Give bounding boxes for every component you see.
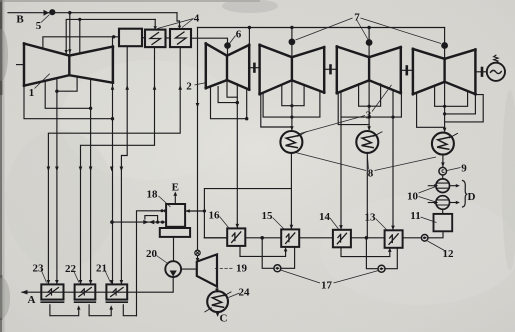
condenser 8c <box>432 133 458 155</box>
wire IP right tap <box>246 89 248 119</box>
pointer 9 <box>447 168 461 171</box>
node LP1 crossings <box>290 104 293 107</box>
main steam line B <box>8 12 177 14</box>
wire box2-box3 connector <box>166 37 171 39</box>
valve 7 of LP3 <box>444 28 446 43</box>
generator <box>487 55 505 81</box>
node LP2 outer crossings <box>368 116 371 119</box>
node IP exhaust <box>236 101 239 104</box>
wire valve 6 to turbine 2 <box>227 48 229 55</box>
drop from main steam to reheater box3 <box>177 13 180 28</box>
heater 14 <box>333 230 351 248</box>
pointer 13 <box>376 219 387 230</box>
wire HP drain cascade 23 to 22 <box>50 305 79 316</box>
pointer 14 <box>330 218 339 229</box>
wire BFPT steam line <box>197 28 199 251</box>
pointer 18 <box>159 196 171 207</box>
wire pump20 shaft to BFPT <box>181 268 197 270</box>
turbine 19 (BFPT) <box>197 254 217 286</box>
valve 7 of LP2 <box>368 28 370 40</box>
svg-text:C: C <box>220 313 228 325</box>
wire LP2 extraction to heater 13 <box>392 90 394 230</box>
wire shaft stub left of turbine 1 <box>17 64 24 66</box>
pointer 22 <box>74 271 80 283</box>
turbine 1 (HP, double-flow) <box>24 44 113 86</box>
condenser 24 <box>205 291 231 312</box>
pointer 23 <box>41 270 47 283</box>
node manifold branch LP1 <box>290 26 293 29</box>
wire riser to separator / drop to heater 21 left <box>112 37 114 285</box>
turbine 3a (LP double-flow) <box>260 45 325 94</box>
wire HP extraction drop to heater 22 right <box>90 79 92 285</box>
turbine 3b (LP double-flow) <box>337 47 401 94</box>
HP heater 22 <box>75 284 96 302</box>
wire LP3 center drop to condenser 3 <box>444 82 446 131</box>
svg-text:23: 23 <box>33 263 45 275</box>
wire manifold riser from turbine 2 top right <box>248 28 250 45</box>
flow arrows below boxes <box>111 85 182 90</box>
pointer 10 (two) <box>419 187 436 203</box>
svg-text:5: 5 <box>36 20 42 32</box>
wire HP drain cascade 22 to 21 <box>89 305 111 316</box>
node IP side loop <box>245 117 248 120</box>
second admission header <box>66 19 155 53</box>
svg-text:24: 24 <box>239 287 251 299</box>
wire IP exhaust left <box>218 87 237 103</box>
svg-text:A: A <box>28 294 36 306</box>
wire 10b to tank 11 <box>442 209 444 214</box>
svg-text:22: 22 <box>65 263 77 275</box>
brace D <box>463 181 468 208</box>
node cold reheat tee <box>111 117 114 120</box>
wire shaft LP2-LP3 with coupling <box>401 69 413 71</box>
wire condenser2 condensate drop <box>366 152 368 237</box>
wire LP1 center drop to condenser 1 <box>291 80 293 129</box>
pointer 5 <box>41 15 50 23</box>
svg-text:1: 1 <box>29 87 35 99</box>
drop header into box2 <box>154 19 156 28</box>
svg-text:15: 15 <box>262 210 274 222</box>
wire condensate main runs <box>204 237 384 239</box>
heater 13 <box>385 230 403 248</box>
pointer 2 <box>195 83 207 86</box>
wire reheater box3 drain <box>48 47 180 284</box>
wire HP left exhaust loop <box>24 86 113 119</box>
wire IP waist drain <box>227 80 237 97</box>
svg-text:17: 17 <box>321 280 333 292</box>
wire box1-box2 connector <box>142 37 145 39</box>
svg-text:18: 18 <box>147 189 159 201</box>
pointer 6 <box>230 36 236 44</box>
svg-text:14: 14 <box>319 211 331 223</box>
pointer 15 <box>273 218 284 229</box>
outlet arrow C <box>217 312 219 314</box>
wire shaft LP3-generator with coupling <box>475 71 486 73</box>
HP heater 23 <box>41 284 63 302</box>
pointer 24 <box>229 293 240 298</box>
node manifold branch LP2 <box>367 26 370 29</box>
svg-text:16: 16 <box>209 210 221 222</box>
node box1 feed tee <box>112 35 115 38</box>
svg-text:E: E <box>172 182 179 194</box>
wire heater14 drain cascade to heater13 <box>341 247 390 256</box>
pointer 12 <box>428 241 445 251</box>
ejector cooler 10b <box>428 196 460 210</box>
pointer 17 (two) <box>281 270 379 283</box>
wire tank to pump 12 <box>428 231 443 238</box>
tank 11 <box>434 214 453 231</box>
wire separator drain with jog to heater 21 right <box>121 46 127 284</box>
wire deaerator downcomer to pump 20 <box>173 237 175 261</box>
reheater box of group 4 <box>145 30 166 47</box>
wire HP drains riser into deaerator <box>137 211 166 316</box>
svg-text:D: D <box>468 191 476 203</box>
LP1 exhaust bracket inner <box>282 85 304 106</box>
wire reheater box2 drain <box>81 47 155 284</box>
wire condenser1 condensate drop to heater 15 <box>290 152 292 229</box>
pointer 8 (three) <box>296 153 437 171</box>
wire IP exhaust drop to heater 16 <box>236 84 238 228</box>
valve on pegging line <box>143 220 154 224</box>
svg-text:10: 10 <box>407 191 419 203</box>
admission drop to HP right half <box>79 19 81 52</box>
node extraction join <box>89 107 92 110</box>
wire hot reheat to valve 6 <box>191 38 228 43</box>
wire pump12 to heater 13 <box>403 237 422 239</box>
svg-text:4: 4 <box>194 13 200 25</box>
wire heater16 condensate to deaerator <box>204 237 227 239</box>
LP1 exhaust bracket outer <box>263 92 320 118</box>
LP2 left drain to condenser feed <box>338 93 369 125</box>
svg-text:13: 13 <box>365 212 377 224</box>
wire deaerator right inlet <box>186 210 204 212</box>
pointer 21 <box>105 270 111 283</box>
svg-text:B: B <box>16 14 24 26</box>
svg-text:6: 6 <box>236 29 242 41</box>
wire condenser3 to pump 9 <box>442 154 444 167</box>
valve 5 <box>44 10 55 16</box>
pointer 1 <box>35 74 50 89</box>
wire IP side loop <box>211 86 247 118</box>
condenser 8a <box>280 131 306 153</box>
wire LP2 center drop to condenser 2 <box>368 80 370 129</box>
svg-text:2: 2 <box>186 81 192 93</box>
arrow A <box>21 290 28 295</box>
heater 16 <box>227 228 245 246</box>
node main steam tee <box>68 11 71 14</box>
edge shading <box>0 0 5 332</box>
wire HP extraction drop to heater 23 right <box>56 78 58 284</box>
svg-text:9: 9 <box>461 163 467 175</box>
svg-text:8: 8 <box>368 168 374 180</box>
svg-text:3: 3 <box>366 110 372 122</box>
wire heater16 drain cascade to heater15 <box>240 246 286 257</box>
branch main steam to HP turbine inlet <box>69 13 71 54</box>
svg-text:7: 7 <box>354 12 360 24</box>
wire shaft LP1-LP2 with coupling <box>324 68 337 70</box>
reheater box of group 4 <box>170 29 191 47</box>
pointer 7 (three) <box>296 18 442 44</box>
LP1 left drain to condenser feed <box>261 94 292 127</box>
valve of BFPT <box>195 250 200 255</box>
svg-text:11: 11 <box>410 210 420 222</box>
wire HP drain 21 to riser <box>123 305 136 316</box>
wire shaft turbine2-LP1 with coupling <box>249 67 259 69</box>
svg-text:19: 19 <box>236 263 248 275</box>
valve 6 <box>225 43 231 49</box>
turbine 3c (LP double-flow) <box>413 49 476 94</box>
condenser 8b <box>356 131 382 153</box>
wire BFPT exhaust <box>216 287 218 290</box>
wire tee to deaerator leg <box>204 189 291 238</box>
pointer 20 <box>157 256 168 264</box>
wire pump 20 discharge <box>22 277 173 292</box>
wire gland line to separator box1 <box>43 37 119 48</box>
ejector cooler 10a <box>428 179 460 193</box>
drain pump 17b loop <box>366 238 378 269</box>
turbine 2 (IP, double-flow) <box>206 44 249 90</box>
drain pump 17a loop <box>262 238 274 268</box>
pointer 16 <box>220 217 229 228</box>
wire crossover manifold <box>198 27 445 29</box>
valve 7 of LP1 <box>291 28 293 40</box>
pointer 11 <box>421 217 437 223</box>
HP heater 21 <box>106 284 127 302</box>
pump 12 <box>421 235 428 242</box>
LP2 exhaust bracket inner <box>359 84 381 106</box>
LP3 left drain <box>417 93 445 127</box>
wire LP2 extraction to heater 14 <box>340 117 342 230</box>
arrowheads into HP heater tops <box>47 280 124 284</box>
label pointers (thin) <box>35 15 461 298</box>
svg-text:21: 21 <box>96 263 107 275</box>
node manifold <box>248 26 251 29</box>
svg-text:12: 12 <box>443 248 455 260</box>
pointer 19 <box>214 267 233 269</box>
wire under-turbine loop <box>57 77 77 92</box>
pointer 3 (two) <box>299 85 392 134</box>
LP2 exhaust bracket outer <box>341 92 401 117</box>
node loop tee <box>55 90 58 93</box>
vent arrow E <box>174 195 176 205</box>
wire pump9 to ejector <box>442 175 444 179</box>
flow arrows on heater drops <box>47 167 124 172</box>
pump 9 <box>439 167 447 175</box>
node admission tee <box>78 18 81 21</box>
LP3 exhaust bracket mid right <box>445 94 476 114</box>
wire pegging steam line with tee <box>112 221 166 223</box>
separator box of group 4 <box>119 29 142 47</box>
pump 20 <box>165 261 181 277</box>
bypass loop <box>145 216 158 223</box>
deaerator 18 column <box>160 204 190 237</box>
wire HP bottom tap to h-run <box>45 81 90 108</box>
LP3 exhaust bracket inner <box>435 86 468 107</box>
pointer 4 (two) <box>158 19 194 29</box>
heater 15 <box>281 229 299 247</box>
node drain pump tees <box>365 236 369 240</box>
LP3 exhaust bracket outer right <box>445 95 484 122</box>
svg-text:20: 20 <box>146 248 158 260</box>
